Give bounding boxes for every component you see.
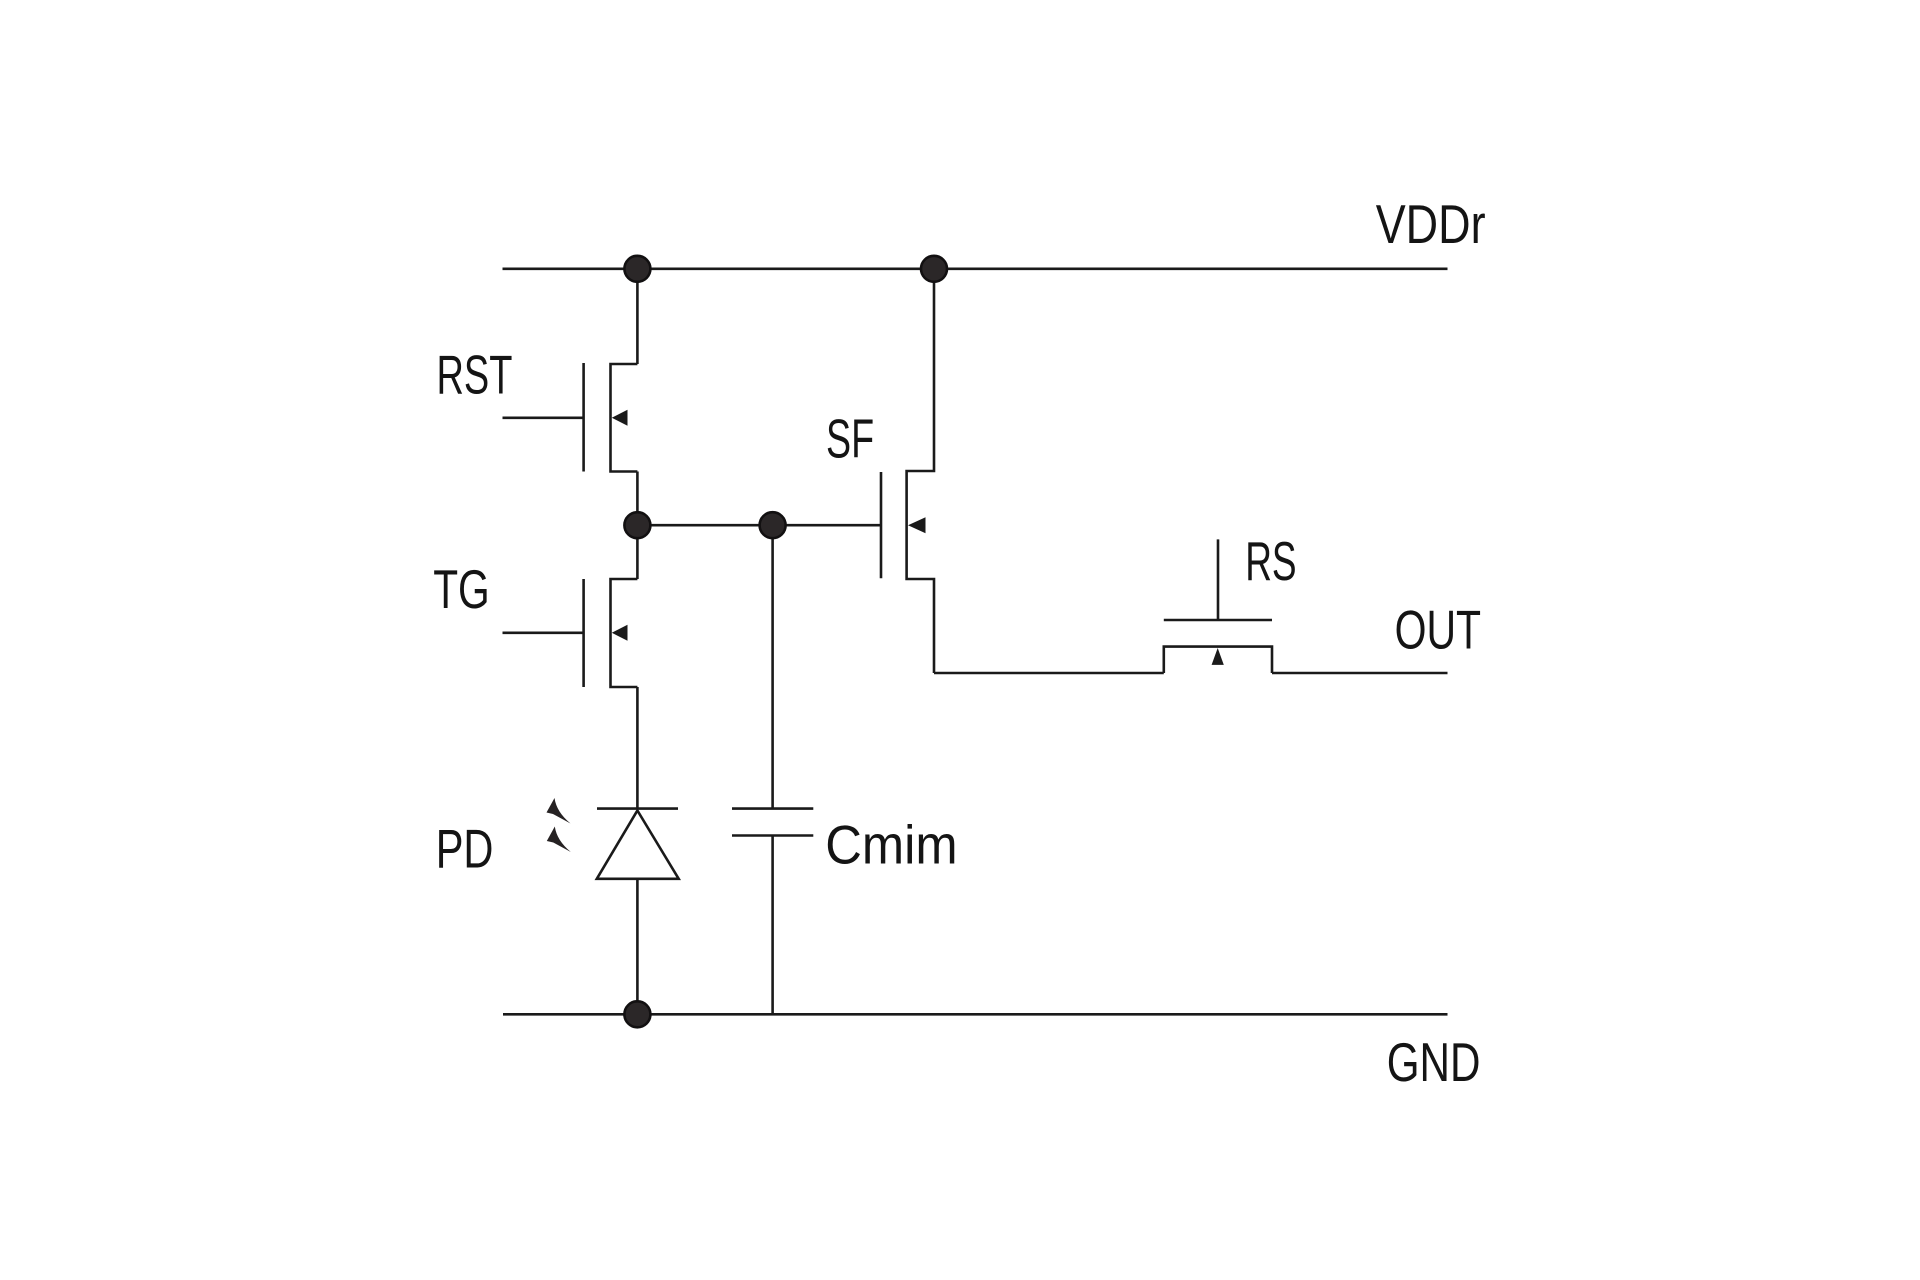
node dot GND-PD: [624, 1001, 650, 1027]
transistor TG arrow: [612, 625, 628, 641]
svg-text:GND: GND: [1387, 1033, 1481, 1094]
wire PD anode to GND: [636, 879, 639, 1015]
wire VDDr rail: [503, 267, 1448, 270]
svg-text:OUT: OUT: [1395, 600, 1481, 661]
node dot VDDr-RST: [624, 256, 650, 282]
transistor RST arrow: [612, 410, 628, 426]
transistor TG channel: [611, 579, 638, 687]
capacitor Cmim top lead: [771, 525, 774, 808]
svg-text:RS: RS: [1245, 531, 1296, 592]
wire FD node to TG drain: [636, 525, 639, 579]
transistor SF arrow: [908, 517, 926, 533]
wire RS gate lead: [1217, 539, 1220, 620]
svg-text:Cmim: Cmim: [825, 815, 957, 876]
capacitor Cmim top plate: [732, 807, 813, 810]
svg-text:SF: SF: [826, 407, 874, 469]
photodiode PD triangle: [597, 811, 679, 879]
wire RST drain from VDDr node: [636, 269, 639, 364]
photodiode PD cathode bar: [597, 807, 678, 810]
wire OUT: [1272, 672, 1448, 675]
wire GND rail: [503, 1013, 1448, 1016]
transistor SF channel: [907, 269, 934, 673]
svg-text:VDDr: VDDr: [1376, 194, 1486, 255]
transistor RST gate bar: [582, 363, 585, 472]
node FD dot: [624, 512, 650, 538]
wire TG source to photodiode: [636, 687, 639, 809]
wire FD node to SF gate: [637, 524, 881, 527]
capacitor Cmim bottom plate: [732, 834, 813, 837]
wire RST gate lead: [503, 416, 584, 419]
node dot FD-Cmim: [760, 512, 786, 538]
transistor RST channel: [611, 364, 638, 472]
transistor TG gate bar: [582, 579, 585, 687]
capacitor Cmim bottom lead: [771, 836, 774, 1015]
transistor RS channel: [1164, 647, 1272, 673]
svg-text:RST: RST: [437, 344, 513, 406]
transistor RS arrow: [1212, 648, 1224, 665]
wire RST source to FD node: [636, 472, 639, 526]
photodiode light arrow 1: [547, 798, 571, 824]
transistor SF gate bar: [880, 472, 883, 578]
svg-text:PD: PD: [436, 819, 494, 880]
transistor RS gate bar: [1164, 619, 1272, 622]
node dot VDDr-SF: [921, 256, 947, 282]
photodiode light arrow 2: [547, 827, 571, 853]
wire TG gate lead: [503, 631, 584, 634]
svg-text:TG: TG: [433, 559, 490, 620]
wire SF source to RS: [934, 672, 1164, 675]
